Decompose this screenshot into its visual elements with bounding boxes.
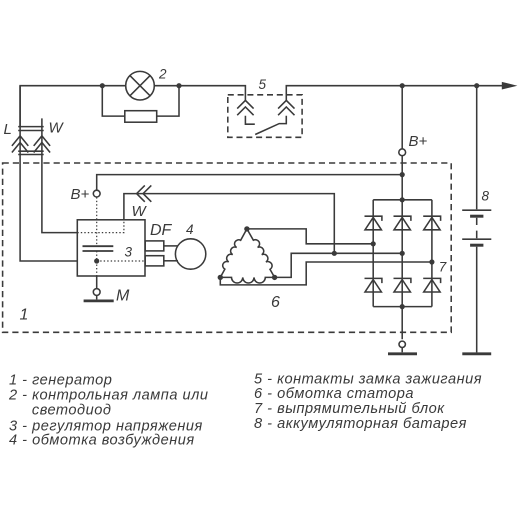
- svg-text:W: W: [49, 120, 65, 137]
- node: junction dot at B+ column: [400, 83, 405, 88]
- terminal circle M: [93, 289, 100, 296]
- svg-text:L: L: [4, 121, 12, 138]
- node: junction dot where W sense joins phase wire: [332, 251, 337, 256]
- node: junction dot on B+ column at sense wire: [400, 172, 405, 177]
- node: stator top vertex dot: [244, 226, 249, 231]
- dotted internal connection: node to DF output: [97, 260, 146, 262]
- rectifier left column: [372, 200, 374, 307]
- connector chevrons on switch right terminal: [278, 100, 294, 115]
- battery to ground wire: [476, 247, 478, 353]
- ground symbol at M: [96, 295, 98, 299]
- diode VD2 upper center: [394, 216, 411, 230]
- regulator B+ sense wire from terminal up and across to B+ column: [97, 175, 403, 191]
- svg-text:7 - выпрямительный блок: 7 - выпрямительный блок: [254, 401, 445, 417]
- dotted internal connection: B+ down to capacitor: [96, 197, 98, 246]
- svg-text:DF: DF: [150, 222, 173, 239]
- connector chevrons on switch left terminal: [237, 100, 253, 115]
- stator delta winding 6: right scalloped side: [247, 229, 275, 278]
- node: dot bottom rail center: [400, 304, 405, 309]
- svg-text:8 - аккумуляторная батарея: 8 - аккумуляторная батарея: [254, 416, 467, 432]
- rectifier bottom rail: [373, 306, 432, 308]
- resistor R (parallel to lamp): [125, 111, 157, 123]
- diode VD3 upper right: [423, 216, 440, 230]
- connector bars across L and W wires (upper pair): [18, 127, 44, 131]
- connector chevrons on W sense wire: [137, 185, 152, 201]
- node: dot phase B on center column: [400, 251, 405, 256]
- wire: top bus from lamp to ignition switch left contact: [154, 86, 245, 101]
- node: junction dot right of lamp: [176, 83, 181, 88]
- rectifier center column from top bus to ground circle: [401, 86, 403, 340]
- svg-text:B+: B+: [71, 186, 90, 203]
- svg-text:M: M: [116, 288, 130, 305]
- voltage regulator box 3: [77, 220, 145, 276]
- ground symbol below battery: [462, 352, 491, 355]
- lamp HL (control lamp) circle with cross, label 2: [126, 71, 155, 100]
- stator top vertex wire to left diode column: [247, 229, 373, 244]
- wire from regulator bottom to M terminal: [96, 276, 98, 289]
- stator bottom-right vertex wire to center diode column: [275, 253, 403, 277]
- stator bottom-left vertex wire to right diode column: [220, 262, 432, 285]
- arrowhead at right end of top bus: [502, 82, 518, 90]
- capacitor C plates inside regulator: [83, 246, 114, 251]
- diode VD4 lower left: [365, 278, 382, 292]
- dotted internal connection: capacitor to internal node: [96, 251, 98, 261]
- rectifier right column: [431, 200, 433, 307]
- ignition switch box 5 (dashed): [228, 95, 302, 138]
- wire: top bus left segment from L terminal to lamp: [20, 86, 126, 127]
- generator dashed box 1: [3, 163, 452, 332]
- svg-text:W: W: [132, 203, 148, 220]
- svg-text:3: 3: [125, 245, 133, 260]
- node: stator bottom-left vertex dot: [218, 275, 223, 280]
- terminal circle B+ of regulator: [93, 190, 100, 197]
- DF brush tab lower: [145, 256, 164, 266]
- node: dot phase C on right column: [429, 259, 434, 264]
- battery 8: feed wire: [476, 86, 478, 210]
- svg-text:1: 1: [20, 307, 29, 324]
- terminal circle B+ of generator: [399, 149, 406, 156]
- regulator W sense wire up over to stator phase: [124, 194, 334, 254]
- wire: resistor branch left drop: [102, 86, 125, 116]
- diode VD1 upper left: [365, 216, 382, 230]
- node: dot phase A on left column: [371, 241, 376, 246]
- battery cell 1 short thick plate: [470, 215, 483, 218]
- svg-text:4: 4: [186, 222, 194, 237]
- wire: top bus from ignition switch right contact to output arrow: [286, 86, 503, 101]
- svg-text:6: 6: [271, 294, 280, 311]
- node: junction dot left of lamp: [100, 83, 105, 88]
- battery cell 1 long plate: [462, 209, 491, 211]
- svg-text:2: 2: [158, 67, 167, 82]
- node: dot top rail center: [400, 197, 405, 202]
- svg-text:2 - контрольная лампа или: 2 - контрольная лампа или: [8, 388, 208, 404]
- battery cell 2 short thick plate: [470, 244, 483, 247]
- dotted internal connection: W input across and up: [77, 220, 124, 233]
- dotted internal connection: node down to M: [96, 261, 98, 276]
- ground symbol below rectifier: [399, 341, 405, 347]
- connector bars across L and W wires (lower pair): [18, 151, 44, 154]
- svg-text:B+: B+: [409, 133, 428, 150]
- node: stator bottom-right vertex dot: [272, 275, 277, 280]
- svg-text:6 - обмотка статора: 6 - обмотка статора: [254, 386, 414, 402]
- terminal L wire: vertical drop and entry to regulator: [20, 86, 77, 261]
- connector chevrons on L wire: [12, 136, 28, 153]
- node: internal junction dot in regulator: [94, 258, 99, 263]
- stator delta winding 6: bottom scalloped side: [220, 277, 274, 283]
- svg-text:8: 8: [482, 189, 490, 204]
- wire: resistor branch right rise: [156, 86, 179, 116]
- wire: upper brush to rotor: [164, 245, 178, 247]
- node: junction dot at battery column: [474, 83, 479, 88]
- switch fixed contact (left): [245, 116, 254, 124]
- svg-text:7: 7: [439, 260, 447, 275]
- svg-text:4 - обмотка возбуждения: 4 - обмотка возбуждения: [9, 433, 195, 449]
- battery inter-cell broken link: [476, 218, 478, 238]
- wire: lower brush to rotor: [164, 260, 178, 262]
- svg-text:1 - генератор: 1 - генератор: [9, 373, 112, 389]
- diode VD5 lower center: [394, 278, 411, 292]
- battery cell 2 long plate: [462, 238, 491, 240]
- svg-text:светодиод: светодиод: [32, 403, 112, 419]
- connector chevrons on W wire: [34, 136, 50, 153]
- rectifier top rail: [373, 199, 432, 201]
- rotor field winding circle 4: [175, 239, 205, 269]
- diode VD6 lower right: [423, 278, 440, 292]
- stator delta winding 6: left scalloped side: [220, 229, 247, 278]
- switch movable contact (right) with open lever: [255, 116, 286, 135]
- DF brush tab upper: [145, 241, 164, 251]
- svg-text:5: 5: [259, 77, 267, 92]
- terminal W (phase out) stub wire down to regulator entry: [42, 118, 77, 232]
